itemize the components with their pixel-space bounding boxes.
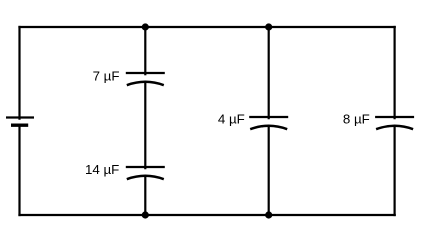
svg-text:8 µF: 8 µF	[343, 112, 370, 127]
svg-text:7 µF: 7 µF	[93, 69, 120, 84]
svg-text:14 µF: 14 µF	[85, 162, 119, 177]
svg-text:4 µF: 4 µF	[218, 112, 245, 127]
